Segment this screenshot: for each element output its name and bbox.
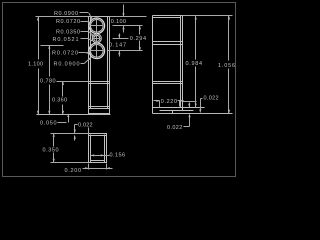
side view top edge — [153, 15, 183, 17]
arrow 0.984 up — [195, 16, 197, 20]
dim 0.220 left piece — [154, 100, 160, 102]
dim 0.360 line lower — [62, 105, 64, 115]
tweeter circle inner R0.0350 — [94, 35, 100, 41]
leader R0.0350 horiz — [81, 31, 89, 33]
speaker circle top inner R0.0720 — [91, 20, 104, 33]
arrow 0.780 up — [48, 45, 50, 49]
arrow 0.220 left-tip — [180, 100, 184, 102]
bottom view inner left wall — [90, 135, 92, 163]
side view shelf1 lower — [153, 44, 183, 46]
arrow 0.022 bv up — [74, 135, 76, 139]
side view right edge — [182, 16, 184, 111]
dim 0.350 line lower — [53, 153, 55, 163]
dim 0.294 lower segment — [139, 41, 141, 51]
leader R0.0720 top horiz — [81, 21, 88, 23]
arrow 0.100 up at center1 — [122, 26, 124, 30]
speaker circle bottom inner R0.0720 — [91, 45, 104, 58]
svg-text:0.294: 0.294 — [130, 36, 146, 42]
dim 0.984 ref line — [183, 101, 197, 103]
arrow 0.780 down — [48, 111, 50, 115]
arrow 0.100 down at top line — [122, 13, 124, 17]
arrow 0.294 up — [139, 26, 141, 30]
center mark circle 3 — [91, 50, 105, 52]
bottom view outer rect — [89, 134, 107, 163]
dim 0.294 upper segment — [139, 26, 141, 35]
arrow 0.200 right-tip — [85, 167, 89, 169]
svg-text:0.350: 0.350 — [43, 148, 59, 154]
dim 1.100 line lower — [38, 69, 40, 115]
dim 0.984 line upper — [195, 16, 197, 60]
svg-text:R0.0521: R0.0521 — [53, 37, 79, 43]
leader R0.0900 top horiz — [80, 12, 89, 14]
border frame — [3, 3, 236, 177]
leader R0.0720 bottom horiz — [79, 52, 86, 54]
arrow 0.147 down at center2 — [118, 35, 120, 39]
leader R0.0900 top diag — [89, 13, 92, 20]
svg-text:0.780: 0.780 — [40, 78, 56, 84]
svg-text:R0.0350: R0.0350 — [56, 30, 80, 36]
ext line center2 right — [113, 38, 129, 40]
arrow leader R0.0521 — [90, 39, 93, 41]
front view inner left wall — [90, 17, 92, 109]
vertical centerline through circles — [96, 19, 98, 59]
front view bottom panel line upper — [89, 106, 110, 108]
arrow leader R0.0900 top — [90, 16, 92, 20]
arrow 1.100 down — [37, 111, 39, 115]
svg-text:1.056: 1.056 — [218, 63, 235, 69]
svg-text:0.984: 0.984 — [186, 61, 203, 67]
side view shelf2 lower — [153, 83, 183, 85]
side view inner top wall line — [153, 17, 181, 19]
arrow 0.050 up — [67, 113, 69, 117]
arrow 1.100 up — [37, 17, 39, 21]
dim 0.022 leader vert lower — [189, 117, 191, 127]
dim 0.200 ext left — [88, 164, 90, 170]
side view shelf2 upper — [153, 81, 183, 83]
leader R0.0900 bottom horiz — [81, 63, 85, 65]
dim 0.022 leader horiz lower — [184, 126, 190, 128]
tweeter circle outer R0.0521 — [92, 34, 101, 43]
dim 0.350 line upper — [53, 134, 55, 147]
side view foot line — [160, 110, 194, 112]
front view shelf line lower — [89, 83, 110, 85]
ext line y45 — [41, 45, 64, 47]
top extension line left — [36, 16, 89, 18]
dim 0.022 bottom-view leader horiz — [75, 124, 78, 126]
dim 0.022 upper leader horiz — [201, 98, 203, 100]
dim 0.220 ext tick A — [159, 101, 161, 108]
front view outer rect — [89, 17, 110, 114]
arrow 0.350 up — [53, 133, 55, 137]
ext line y81 left — [57, 81, 89, 83]
svg-text:0.360: 0.360 — [52, 98, 67, 104]
leader R0.0350 diag — [89, 32, 95, 37]
leader R0.0521 horiz — [81, 38, 89, 40]
arrow leader R0.0900 bottom — [88, 57, 91, 60]
dim 0.022 bottom-view up stub — [74, 136, 76, 141]
svg-text:0.147: 0.147 — [109, 43, 126, 49]
front view bottom panel line lower — [89, 108, 110, 110]
speaker circle bottom outer R0.0900 — [89, 43, 105, 59]
svg-text:0.022: 0.022 — [167, 125, 182, 131]
leader R0.0521 diag — [89, 39, 93, 41]
arrow 0.022 down at bottom line — [188, 104, 190, 108]
dim 0.780 line lower — [49, 85, 51, 115]
dim 0.100 top stub — [123, 5, 125, 17]
front view inner right wall — [107, 17, 109, 109]
dim 0.147 top stub — [119, 34, 121, 39]
dim 0.220 ext tick B — [179, 101, 181, 107]
arrow leader R0.0350 — [91, 35, 94, 37]
svg-text:1.100: 1.100 — [28, 62, 43, 68]
svg-text:R0.0720: R0.0720 — [56, 19, 80, 25]
leader R0.0720 top diag — [88, 22, 91, 24]
side view inner right wall — [180, 16, 182, 108]
dim 0.022 bottom-view down stub — [74, 125, 76, 134]
side view left edge — [152, 16, 154, 114]
svg-text:R0.0900: R0.0900 — [54, 11, 78, 17]
arrow 1.056 up — [228, 16, 230, 20]
arrow 0.360 down — [62, 111, 64, 115]
front view shelf line upper — [89, 81, 110, 83]
ext line center1 right — [113, 25, 143, 27]
side view top ext line — [183, 15, 233, 17]
arrow 0.360 up — [62, 81, 64, 85]
dim 0.022 arrows vert upper — [189, 103, 191, 108]
arrow 0.156 left — [91, 154, 95, 156]
side view foot tick — [172, 111, 174, 114]
dim 0.200 line — [83, 168, 113, 170]
bottom view left wall stub — [88, 128, 90, 134]
dim 0.156 line — [91, 155, 110, 157]
svg-text:0.022: 0.022 — [204, 96, 219, 102]
arrow leader R0.0720 bottom — [87, 52, 90, 55]
dim 1.056 line upper — [228, 16, 230, 61]
arrow 1.056 down — [228, 110, 230, 114]
dim 0.984 line lower — [195, 67, 197, 108]
dim 0.100 bottom stub — [123, 26, 125, 33]
top extension line right of front view — [110, 16, 147, 18]
dim 0.350 ext top — [51, 133, 89, 135]
arrow 0.200 left-tip — [106, 167, 110, 169]
dim 0.022 upper leader vert — [200, 99, 202, 110]
ext line center3 right — [108, 50, 143, 52]
dim 1.100 line upper — [38, 17, 40, 60]
right baseline — [153, 113, 233, 115]
dim 0.220 right piece — [178, 100, 184, 102]
arrow 0.984 down — [195, 104, 197, 108]
speaker circle top outer R0.0900 — [89, 18, 105, 34]
arrow 0.147 up at center3 — [118, 51, 120, 55]
arrow 0.156 right — [101, 154, 105, 156]
dim 0.360 line upper — [62, 82, 64, 97]
arrow 0.022 bv down — [74, 130, 76, 134]
bottom view baffle second line — [89, 135, 107, 137]
arrow 0.294 down — [139, 47, 141, 51]
leader R0.0720 bottom diag — [86, 52, 91, 53]
arrow 0.022 up at foot line — [188, 114, 190, 118]
svg-text:0.022: 0.022 — [78, 122, 93, 128]
svg-text:0.220: 0.220 — [161, 99, 177, 105]
arrow 0.350 down — [53, 159, 55, 163]
dim 1.056 line lower — [228, 69, 230, 114]
bottom view inner bottom line — [91, 160, 105, 162]
svg-text:R0.0720: R0.0720 — [52, 51, 78, 57]
dim 0.350 ext bottom — [51, 162, 89, 164]
leader R0.0900 bottom diag — [85, 57, 92, 63]
arrow 0.220 right-tip — [156, 100, 160, 102]
arrow leader R0.0720 top — [88, 22, 91, 24]
svg-text:0.100: 0.100 — [111, 19, 126, 25]
svg-text:0.050: 0.050 — [40, 121, 57, 127]
svg-text:0.156: 0.156 — [110, 153, 126, 159]
dim 0.147 bottom stub — [119, 51, 121, 57]
center mark circle 1 — [91, 25, 104, 27]
dim 0.050 leader horiz — [58, 122, 67, 124]
bottom view inner right wall — [104, 135, 106, 163]
center mark circle 2 — [93, 38, 102, 40]
svg-text:R0.0900: R0.0900 — [54, 61, 80, 67]
ground baseline — [37, 114, 111, 116]
dim 0.200 ext right — [106, 164, 108, 170]
dim 0.050 leader vert — [68, 115, 70, 123]
side view bottom line — [153, 107, 205, 109]
arrow 0.022 upper leader down — [199, 110, 201, 114]
side view shelf1 upper — [153, 41, 183, 43]
dim 0.780 line upper — [49, 46, 51, 77]
svg-text:0.200: 0.200 — [65, 168, 82, 174]
